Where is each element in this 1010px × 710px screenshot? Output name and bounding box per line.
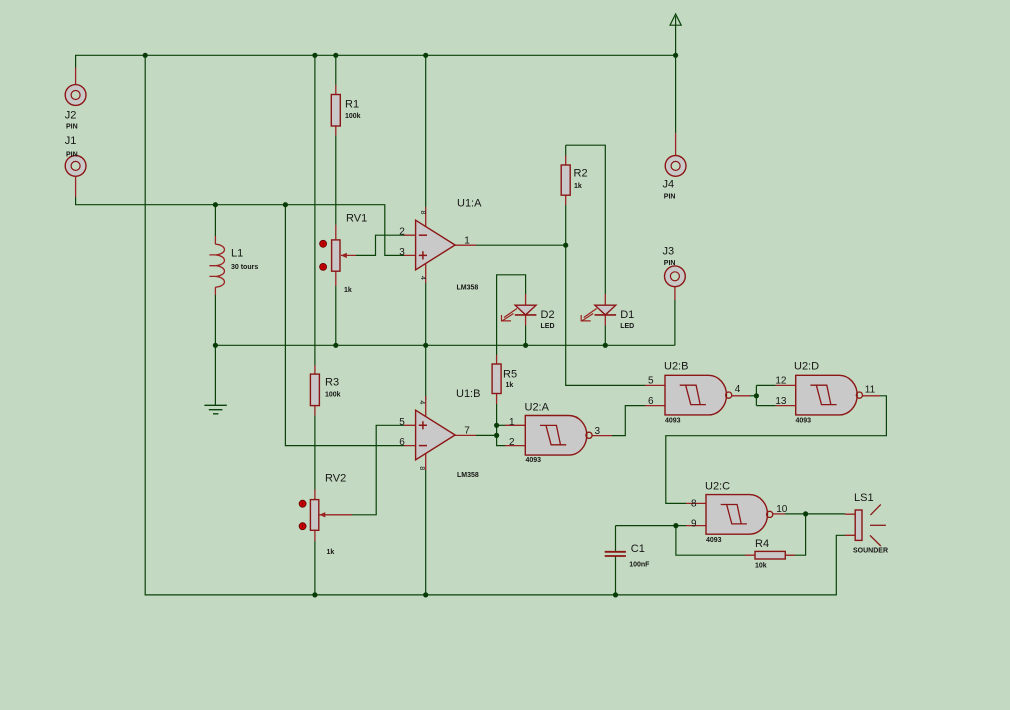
svg-text:J1: J1 xyxy=(65,135,77,147)
svg-text:4093: 4093 xyxy=(706,537,722,544)
svg-text:PIN: PIN xyxy=(66,124,78,131)
svg-text:2: 2 xyxy=(509,437,515,448)
svg-text:12: 12 xyxy=(775,376,787,387)
svg-text:100nF: 100nF xyxy=(629,562,650,569)
svg-text:5: 5 xyxy=(399,417,405,428)
svg-text:R2: R2 xyxy=(574,167,588,179)
svg-text:8: 8 xyxy=(691,498,697,509)
svg-text:5: 5 xyxy=(648,376,654,387)
svg-text:9: 9 xyxy=(691,519,697,530)
svg-text:4093: 4093 xyxy=(796,417,812,424)
svg-text:1k: 1k xyxy=(574,183,582,190)
svg-text:PIN: PIN xyxy=(66,151,78,158)
svg-text:J4: J4 xyxy=(663,179,675,191)
svg-text:RV2: RV2 xyxy=(325,472,346,484)
svg-text:L1: L1 xyxy=(231,247,243,259)
svg-text:RV1: RV1 xyxy=(346,213,367,225)
svg-text:4: 4 xyxy=(418,400,425,404)
svg-text:LED: LED xyxy=(620,323,634,330)
svg-text:100k: 100k xyxy=(345,113,361,120)
svg-text:11: 11 xyxy=(865,385,876,396)
svg-text:10: 10 xyxy=(776,504,788,515)
svg-text:3: 3 xyxy=(595,426,601,437)
svg-text:4: 4 xyxy=(419,276,426,280)
svg-text:U2:D: U2:D xyxy=(794,361,819,373)
svg-text:1k: 1k xyxy=(506,382,514,389)
svg-text:4093: 4093 xyxy=(665,417,681,424)
svg-text:D1: D1 xyxy=(620,309,634,321)
svg-text:1k: 1k xyxy=(327,549,335,556)
svg-text:J3: J3 xyxy=(663,245,675,257)
svg-text:1: 1 xyxy=(464,235,470,246)
svg-text:8: 8 xyxy=(418,466,425,470)
svg-text:30 tours: 30 tours xyxy=(231,264,258,271)
svg-text:6: 6 xyxy=(648,396,654,407)
svg-text:D2: D2 xyxy=(541,309,555,321)
svg-text:R1: R1 xyxy=(345,99,359,111)
svg-text:J2: J2 xyxy=(65,109,77,121)
svg-text:10k: 10k xyxy=(755,563,767,570)
svg-text:1: 1 xyxy=(509,417,515,428)
svg-text:7: 7 xyxy=(464,426,470,437)
svg-text:2: 2 xyxy=(399,227,405,238)
svg-text:LS1: LS1 xyxy=(854,492,874,504)
svg-text:R4: R4 xyxy=(755,538,769,550)
svg-text:LM358: LM358 xyxy=(457,472,479,479)
svg-text:3: 3 xyxy=(399,247,405,258)
svg-text:U2:B: U2:B xyxy=(664,361,688,373)
svg-text:C1: C1 xyxy=(631,543,645,555)
svg-text:1k: 1k xyxy=(344,287,352,294)
svg-text:4093: 4093 xyxy=(526,457,542,464)
svg-text:6: 6 xyxy=(399,437,405,448)
svg-text:8: 8 xyxy=(419,211,426,215)
svg-text:SOUNDER: SOUNDER xyxy=(853,548,888,555)
svg-text:U2:C: U2:C xyxy=(705,481,730,493)
svg-text:R3: R3 xyxy=(325,376,339,388)
svg-text:U2:A: U2:A xyxy=(525,402,550,414)
svg-text:LM358: LM358 xyxy=(457,284,479,291)
svg-text:U1:A: U1:A xyxy=(457,198,482,210)
svg-text:LED: LED xyxy=(541,323,555,330)
svg-text:PIN: PIN xyxy=(664,260,676,267)
svg-text:13: 13 xyxy=(775,396,787,407)
svg-text:U1:B: U1:B xyxy=(456,388,480,400)
svg-text:PIN: PIN xyxy=(664,194,676,201)
svg-text:100k: 100k xyxy=(325,392,341,399)
svg-text:4: 4 xyxy=(735,384,741,395)
svg-text:R5: R5 xyxy=(503,369,517,381)
